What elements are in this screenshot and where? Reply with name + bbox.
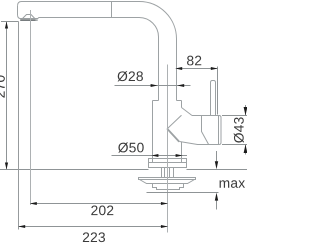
label Ø43 rotated <box>234 117 244 142</box>
arrow 223 right <box>161 225 168 228</box>
node mounting washer <box>139 178 196 180</box>
label 270 rotated <box>0 75 5 97</box>
arrow 82 left <box>175 67 182 70</box>
arrow 82 right <box>211 67 218 70</box>
wire 82 right extension <box>217 67 219 115</box>
dimension 202 line <box>31 203 168 205</box>
arrow Ø28 right <box>151 84 158 87</box>
arrow 202 right <box>161 202 168 205</box>
wire cone upper edge <box>182 108 193 116</box>
arrow Ø43 up <box>244 145 248 154</box>
dimension Ø43 stems <box>245 105 247 155</box>
wire spout-tip extension line <box>18 22 20 230</box>
arrow max down <box>215 161 218 169</box>
node aerator collar <box>18 15 39 18</box>
dimension 82 line <box>177 68 218 70</box>
arrow Ø50 right <box>176 154 183 157</box>
node mounting nut <box>153 184 184 190</box>
arrow 270 down <box>5 163 8 170</box>
dimension 270 line <box>6 22 8 170</box>
wire spout tube outline <box>22 1 177 100</box>
dimension Ø50 line <box>112 155 188 157</box>
arrow 270 up <box>5 22 8 29</box>
wire Ø43 extensions <box>222 116 247 145</box>
wire 270 top extension <box>1 21 19 23</box>
dimension Ø28 line <box>115 85 191 87</box>
arrow Ø43 down <box>244 107 248 116</box>
node handle housing <box>192 115 219 117</box>
dimension 223 line <box>19 226 168 228</box>
dimension max stems <box>216 151 218 210</box>
node mixer body <box>153 100 182 102</box>
arrow max up <box>215 193 218 201</box>
node handle lever <box>211 81 216 116</box>
wire aerator centerline <box>30 10 32 205</box>
arrow 202 left <box>30 202 37 205</box>
label 202 <box>91 205 113 215</box>
wire tap centerline <box>167 65 169 233</box>
node handle end cap <box>218 116 220 145</box>
node body-handle seam <box>167 115 182 129</box>
label 223 <box>83 232 105 242</box>
label Ø28 <box>118 71 143 81</box>
label max <box>220 180 245 188</box>
arrow 223 left <box>18 225 25 228</box>
node base flange <box>149 159 187 168</box>
arrow Ø28 left <box>177 84 184 87</box>
label 82 <box>187 56 201 66</box>
node threaded shank <box>162 168 174 178</box>
node spout joint line <box>111 2 113 18</box>
node countertop line <box>0 169 247 171</box>
wire max bottom line <box>147 192 219 194</box>
label Ø50 <box>118 142 143 152</box>
arrow Ø50 left <box>151 154 158 157</box>
